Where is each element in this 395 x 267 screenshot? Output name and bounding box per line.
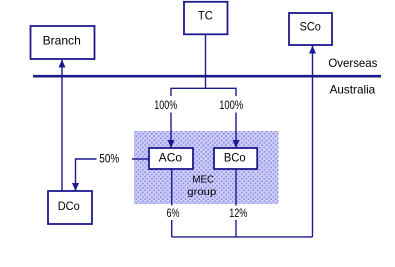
wire BCo down to bottom connector <box>235 170 237 237</box>
arrowhead into SCo <box>309 46 316 54</box>
svg-text:TC: TC <box>198 9 213 23</box>
arrowhead into BCo <box>233 140 240 148</box>
svg-text:12%: 12% <box>229 206 247 220</box>
label 100% right <box>218 96 246 113</box>
svg-text:6%: 6% <box>167 206 180 220</box>
wire Branch vertical <box>61 60 63 192</box>
label 6% <box>165 206 182 221</box>
arrowhead into Branch <box>59 60 66 68</box>
label 50% <box>97 152 132 166</box>
svg-text:Overseas: Overseas <box>328 56 377 70</box>
svg-text:DCo: DCo <box>58 199 80 213</box>
box DCo <box>48 191 92 224</box>
svg-text:Branch: Branch <box>43 34 81 48</box>
svg-text:ACo: ACo <box>159 151 183 165</box>
svg-text:100%: 100% <box>154 98 177 112</box>
wire bottom connector <box>172 236 313 238</box>
box ACo <box>149 148 193 169</box>
wire up to SCo <box>312 46 314 237</box>
box Branch <box>31 26 95 59</box>
wire ACo down to bottom connector <box>171 170 173 237</box>
wire connector horizontal <box>171 88 236 148</box>
box BCo <box>214 148 257 169</box>
label 100% left <box>153 96 180 113</box>
svg-text:Australia: Australia <box>330 83 376 97</box>
box TC <box>184 2 228 35</box>
wire TC down to connector <box>205 35 207 89</box>
svg-text:BCo: BCo <box>224 151 246 165</box>
label 12% <box>228 206 250 221</box>
arrowhead into DCo <box>72 183 79 191</box>
svg-text:MEC: MEC <box>192 174 214 186</box>
MEC group shaded region <box>134 131 279 204</box>
svg-text:50%: 50% <box>99 152 119 166</box>
box SCo <box>289 13 332 45</box>
divider line Overseas/Australia <box>33 75 381 78</box>
svg-text:100%: 100% <box>219 98 243 112</box>
svg-text:group: group <box>187 186 216 198</box>
wire 50% elbow to DCo <box>76 159 150 191</box>
svg-text:SCo: SCo <box>300 20 321 34</box>
arrowhead into ACo <box>168 140 175 148</box>
